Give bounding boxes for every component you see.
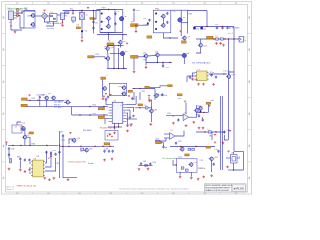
svg-text:IC5 TOP258 AC/DC: IC5 TOP258 AC/DC — [192, 62, 211, 65]
wire aux rail2 — [27, 106, 71, 107]
wire driver leg C — [123, 56, 125, 69]
snubber block D4 — [72, 17, 76, 21]
svg-text:C48: C48 — [105, 148, 108, 150]
power flag thermal — [69, 133, 71, 134]
capacitor C30 — [126, 124, 128, 127]
svg-text:note 3: note 3 — [228, 32, 233, 35]
junction relay top — [233, 152, 234, 153]
resistor R27 — [156, 140, 160, 142]
capacitor C46 — [213, 163, 215, 166]
ferrite bead FB9 — [185, 169, 188, 171]
ground symbol IC5 left — [191, 78, 194, 81]
wire bus line A x220.5 — [220, 96, 222, 170]
wire drop x212 — [211, 132, 213, 140]
svg-text:DRAWN J.DOE 2014-06-30 A3: DRAWN J.DOE 2014-06-30 A3 — [205, 189, 228, 192]
wire band drop A — [133, 92, 135, 100]
wire U4 right w1 — [126, 103, 136, 105]
svg-text:C11: C11 — [203, 28, 206, 30]
wire snubber drop — [72, 11, 74, 14]
svg-text:8: 8 — [120, 105, 121, 107]
resistor R3 — [65, 12, 69, 14]
net label AUX — [76, 27, 80, 29]
svg-text:R3: R3 — [70, 9, 72, 11]
svg-text:Q16: Q16 — [104, 46, 108, 48]
svg-text:IC5: IC5 — [198, 69, 201, 71]
wire thermal drop x63 — [62, 146, 64, 177]
capacitor C35 — [202, 118, 204, 121]
PWM controller U8 — [31, 160, 45, 177]
wire bl left drop — [6, 144, 8, 146]
power flag aux — [28, 95, 30, 96]
junction far right column — [59, 145, 60, 146]
module1 pad 1 — [101, 13, 103, 15]
wire row2-right rail ext — [158, 62, 173, 64]
driver terminal M3 — [120, 51, 124, 55]
junction bl rail D — [46, 145, 47, 146]
junction IC5 wire — [223, 73, 224, 74]
wire bl rail y145.4 — [8, 144, 58, 146]
wire opto to filter column — [57, 14, 61, 16]
wire U7 in2 — [164, 137, 170, 139]
svg-text:Q20: Q20 — [232, 74, 236, 76]
svg-text:D17: D17 — [60, 131, 63, 133]
svg-text:C30: C30 — [130, 123, 133, 125]
ground symbol r3r B — [202, 127, 205, 130]
ground symbol input return — [14, 31, 17, 34]
wire ISNS2 drop — [207, 104, 209, 112]
mosfet Q10 in module2 — [160, 14, 165, 19]
svg-text:M3: M3 — [125, 51, 128, 53]
capacitor C15 — [148, 19, 150, 22]
svg-text:L9: L9 — [188, 146, 190, 148]
wire far right column — [59, 131, 61, 145]
transistor Q17 — [105, 56, 110, 61]
junction U4 bottom A — [114, 126, 115, 127]
wire driver leg B — [118, 48, 120, 69]
junction Q19 node — [157, 62, 158, 63]
svg-text:DC current limit: DC current limit — [163, 157, 177, 160]
capacitor C18 — [166, 21, 168, 24]
junction thermal rail F — [62, 146, 63, 147]
svg-text:C12: C12 — [215, 24, 218, 26]
svg-text:D9: D9 — [77, 25, 79, 27]
wire C6-C7 column — [93, 11, 95, 34]
module2 pad 2 — [155, 21, 157, 23]
capacitor C45 — [175, 142, 177, 145]
capacitor C40 — [62, 134, 64, 137]
wire snubber lower — [72, 21, 74, 23]
junction top rail A — [72, 10, 73, 11]
junction ref box A — [107, 135, 108, 136]
svg-text:5: 5 — [239, 156, 240, 158]
wire bl upper right — [27, 137, 30, 145]
junction clusterD A — [180, 146, 181, 147]
capacitor C51 — [161, 93, 163, 96]
polarized capacitor C10 — [193, 27, 196, 30]
svg-text:M2: M2 — [183, 17, 186, 19]
junction thermal A — [68, 146, 69, 147]
wire IC5 out to Q20 — [209, 73, 228, 75]
wire thermal bottom — [63, 177, 77, 179]
transistor Q26 — [71, 138, 76, 143]
junction sense A — [89, 106, 90, 107]
wire choke to rectifier — [35, 15, 41, 17]
wire opamp vertical x186 — [185, 103, 187, 115]
transistor Q21 — [65, 100, 70, 105]
junction thermal C — [94, 146, 95, 147]
ground symbol out B — [219, 42, 222, 45]
wire bl down — [24, 139, 26, 145]
wire thermal arch — [69, 139, 74, 144]
svg-text:C45: C45 — [178, 141, 181, 143]
wire row2 mid top link — [114, 45, 124, 47]
svg-text:C24: C24 — [211, 72, 214, 74]
wire loop bottom-left — [12, 125, 22, 133]
power flag U4 right top — [128, 96, 130, 97]
ground symbol small cluster B — [147, 168, 150, 171]
capacitor C28 above U4 — [107, 95, 109, 98]
fuse F2 — [17, 13, 19, 16]
ground symbol U8 A — [43, 177, 46, 180]
transistor Q34 — [121, 85, 126, 90]
svg-text:L6: L6 — [145, 105, 147, 107]
svg-text:Flexible Fuse TBD: Flexible Fuse TBD — [100, 128, 117, 130]
driver terminal M4 — [182, 53, 186, 57]
wire driver2 ext — [162, 63, 164, 66]
wire Q19 down — [157, 57, 159, 63]
wire clusterD bottom drop B — [190, 172, 192, 176]
wire U4 left bottom — [105, 119, 109, 124]
power flag relay — [227, 151, 229, 152]
ferrite bead FB6 — [188, 148, 191, 150]
wire U7 feedback — [160, 138, 166, 141]
transistor Q29 — [209, 156, 214, 161]
svg-text:Sheet 1/1: Sheet 1/1 — [6, 188, 14, 191]
wire lower band rail — [133, 88, 156, 90]
svg-text:C43: C43 — [143, 161, 146, 163]
svg-text:3: 3 — [124, 111, 125, 113]
svg-text:Q15: Q15 — [48, 93, 51, 95]
svg-text:C15: C15 — [143, 18, 146, 20]
svg-text:C47: C47 — [227, 130, 230, 132]
power module PM2 box — [153, 10, 171, 33]
ground symbol bl mid B — [24, 170, 27, 173]
net label FB_B — [168, 85, 173, 87]
transistor Q33 — [102, 86, 107, 91]
capacitor C14 — [226, 26, 228, 29]
wire Q30 down — [151, 113, 153, 123]
svg-text:C22: C22 — [166, 67, 169, 69]
transistor Q25 — [21, 126, 26, 131]
junction ext rail — [139, 107, 140, 108]
common-mode choke L1 box — [24, 11, 35, 29]
ground symbol clusterD D — [202, 175, 205, 178]
ground symbol band — [148, 99, 151, 102]
wire Q24 top — [196, 105, 198, 109]
wire Q18 gnd drop — [145, 63, 147, 66]
ground symbol C24 — [212, 83, 215, 86]
junction red r3r — [202, 117, 203, 118]
wire Q10-Q11 link — [162, 18, 164, 24]
net label FB_A — [145, 86, 150, 88]
wire driver bottom rail — [107, 68, 127, 70]
capacitor C9 — [114, 22, 116, 25]
svg-text:C34: C34 — [196, 114, 199, 116]
title block outline — [205, 184, 247, 192]
wire U8 right net A — [45, 151, 47, 163]
svg-text:L4: L4 — [216, 36, 218, 38]
wire thermal rail y146.3 — [60, 145, 114, 147]
junction bus top A — [228, 38, 229, 39]
polarized capacitor C11 — [200, 27, 203, 30]
capacitor C24 — [210, 74, 212, 77]
junction input return — [10, 25, 11, 26]
net label REF2 — [156, 142, 162, 144]
polarized cap C16 — [147, 23, 149, 25]
svg-text:PWM CTL SG-10.1-R: PWM CTL SG-10.1-R — [17, 185, 37, 187]
mosfet Q11 in module2 — [160, 23, 165, 28]
svg-text:Q31: Q31 — [197, 105, 201, 107]
capacitor C33 — [177, 118, 179, 121]
wire aux rail y100.3 — [27, 99, 64, 100]
wire Q19 to M4 — [159, 54, 182, 56]
svg-text:D12 BAV99: D12 BAV99 — [54, 101, 63, 104]
relay K1 box — [231, 155, 238, 164]
output connector J2 — [239, 37, 244, 43]
junction r3r B — [203, 112, 204, 113]
junction y132 B — [215, 131, 216, 132]
transistor Q19 — [155, 53, 160, 58]
wire C47 link — [224, 135, 228, 140]
module2 pad 3 — [155, 28, 157, 30]
wire U7 out — [175, 131, 184, 137]
junction row2-right B — [169, 62, 170, 63]
wire bus line D x234 — [233, 27, 235, 152]
svg-text:T4: T4 — [15, 126, 17, 128]
svg-text:Bx 4F 450V: Bx 4F 450V — [229, 28, 240, 30]
reference box loop — [105, 131, 118, 141]
junction bl rail B — [20, 145, 21, 146]
svg-text:F1: F1 — [20, 10, 22, 12]
svg-text:R80: R80 — [32, 143, 35, 145]
power flag clusterD — [214, 142, 216, 143]
wire ext rail y107.8 — [135, 107, 152, 109]
svg-text:R23: R23 — [144, 60, 147, 62]
svg-text:T2: T2 — [86, 15, 88, 17]
capacitor C13 — [221, 26, 223, 29]
svg-text:Q29: Q29 — [214, 157, 218, 159]
ground symbol U8 B — [48, 178, 51, 181]
svg-text:Q30: Q30 — [154, 109, 158, 111]
transistor Q18 — [143, 54, 148, 59]
svg-text:L8: L8 — [81, 151, 83, 153]
mosfet Q5 in module1 — [106, 24, 111, 29]
wire module1 right leg — [122, 10, 124, 33]
ground symbol out A — [215, 42, 218, 45]
net label VOUT — [207, 36, 214, 39]
capacitor C32 — [157, 94, 159, 97]
svg-text:M1: M1 — [125, 16, 128, 18]
ground symbol thermal B — [111, 158, 114, 161]
wire U8 left pins b — [29, 167, 31, 169]
ground symbol clusterD B — [190, 177, 193, 180]
wire top-right feed — [188, 10, 208, 12]
junction C4 node — [81, 37, 82, 38]
capacitor C42b — [54, 153, 56, 156]
capacitor C34 — [198, 114, 200, 117]
junction top rail C — [93, 10, 94, 11]
svg-text:C8: C8 — [117, 11, 119, 13]
wire band drop C — [154, 89, 156, 100]
wire relay bottom path — [234, 163, 244, 170]
wire ext top — [149, 97, 152, 109]
junction row2-right A — [162, 62, 163, 63]
wire relay bottom left — [228, 169, 234, 171]
capacitor C48 — [103, 150, 105, 153]
svg-text:R62: R62 — [211, 100, 214, 102]
net label TSEN — [104, 143, 110, 145]
wire clusterD rail y146.5 — [170, 146, 215, 148]
junction module1 top — [108, 9, 109, 10]
wire relay right leg — [243, 152, 245, 171]
net label ISNS_B — [98, 116, 104, 119]
capacitor C41b — [45, 151, 47, 154]
wire rectifier bottom stub — [45, 18, 50, 22]
svg-text:LS-1 Ω: LS-1 Ω — [224, 70, 231, 72]
wire Q17 down — [107, 60, 109, 68]
junction rail y115 left — [79, 114, 80, 115]
wire Q20 up to bus — [229, 72, 234, 75]
svg-text:U2: U2 — [51, 12, 53, 14]
transistor Q16 — [105, 46, 110, 51]
ferrite bead FB10 — [81, 148, 84, 150]
svg-text:■ PLUS: ■ PLUS — [234, 186, 244, 190]
capacitor C12 — [216, 26, 218, 29]
capacitor C47 — [223, 131, 225, 134]
wire opamp rail y115.6 — [166, 115, 183, 117]
border zone tick marks — [2, 2, 252, 195]
choke winding W1 — [30, 13, 35, 18]
ground symbol out C — [222, 44, 225, 47]
wire FB_B link — [149, 86, 168, 88]
ground symbol U4 bottom B — [109, 133, 112, 136]
svg-text:Q28: Q28 — [194, 162, 197, 164]
wire Q8 down — [120, 44, 122, 47]
wire module2 top link — [181, 9, 187, 11]
wire REF2 tail — [161, 143, 163, 146]
wire Q16-Q17 link — [107, 50, 109, 56]
filter block U3 — [61, 13, 65, 20]
transistor Q31 — [198, 106, 203, 111]
junction driver C — [123, 68, 124, 69]
wire pri link — [94, 11, 97, 20]
junction aux rail B — [37, 100, 38, 101]
wire aux drop A — [39, 99, 41, 106]
junction thermal D — [102, 146, 103, 147]
svg-text:Q16: Q16 — [111, 47, 114, 49]
capacitor C22 — [162, 65, 164, 68]
transistor Q35 — [121, 91, 126, 96]
wire relay right pin — [237, 157, 240, 159]
ground symbol Q18 lower — [145, 66, 148, 69]
op-amp U6 — [183, 114, 189, 121]
capacitor C37 — [8, 153, 10, 156]
svg-text:Q32: Q32 — [89, 148, 93, 150]
ground symbol relay — [226, 166, 229, 169]
wire GATE_B feed — [138, 56, 144, 58]
wire U8 left pins — [29, 162, 31, 164]
offline switcher IC5 — [195, 71, 209, 81]
wire opto lower stub — [46, 22, 54, 27]
net label GATE_B — [131, 55, 139, 58]
junction y39 bus — [233, 38, 234, 39]
junction VBUS node — [135, 25, 136, 26]
svg-text:C60: C60 — [136, 10, 139, 12]
ground symbol bl mid A — [19, 169, 22, 172]
ground symbol Q30 — [149, 123, 152, 126]
junction module2 bottom — [169, 37, 170, 38]
wire VBUS gnd drop — [135, 27, 137, 30]
wire M4 down — [183, 58, 185, 64]
wire sense rail top — [64, 101, 71, 103]
svg-text:Q14: Q14 — [204, 46, 207, 48]
wire module1 bottom — [100, 32, 123, 34]
junction driver A — [113, 68, 114, 69]
junction band A — [133, 88, 134, 89]
svg-text:R52: R52 — [93, 105, 96, 107]
wire bus line C x228.5 — [228, 39, 230, 140]
svg-text:10mH: 10mH — [27, 16, 33, 18]
wire HV top rail — [63, 10, 101, 12]
wire driver leg A — [113, 46, 115, 69]
capacitor C7 — [92, 26, 94, 29]
ferrite bead FB2 — [221, 38, 224, 40]
svg-text:R77: R77 — [62, 140, 65, 142]
wire U4 bottom bus — [108, 126, 122, 128]
junction bulk rail B — [222, 26, 223, 27]
capacitor C63 — [189, 76, 191, 79]
junction REF2 — [165, 147, 166, 148]
wire U8 right net C — [45, 158, 56, 171]
capacitor C29 right top — [131, 97, 133, 100]
ground symbol opamp B — [185, 124, 188, 127]
ferrite bead FB4 — [208, 131, 211, 133]
wire module2 top feed — [171, 9, 181, 11]
svg-text:R65: R65 — [17, 156, 20, 158]
power flag module2 — [179, 31, 181, 32]
wire sense rail mid — [72, 114, 108, 116]
wire U4 left stub A — [106, 100, 109, 104]
svg-text:R21: R21 — [96, 54, 99, 56]
junction ref box B — [111, 136, 112, 137]
ground symbol r3r A — [198, 127, 201, 130]
module1 pad 2 — [101, 21, 103, 23]
capacitor C31 — [129, 116, 131, 119]
junction bulk rail — [206, 26, 207, 27]
net label DRV_A — [138, 104, 143, 106]
junction clusterD B — [195, 146, 196, 147]
svg-text:M4: M4 — [187, 53, 190, 55]
capacitor C40b — [28, 158, 30, 161]
aux transformer T1 box — [80, 13, 85, 20]
ferrite bead FB7 — [192, 148, 195, 150]
svg-text:R27: R27 — [156, 138, 159, 140]
wire J1 to choke bottom — [18, 16, 24, 29]
wire output rail y39 — [196, 38, 239, 40]
ferrite bead FB5 — [145, 164, 148, 166]
choke winding W2 — [30, 22, 35, 27]
wire Q18-Q19 link — [148, 54, 156, 57]
